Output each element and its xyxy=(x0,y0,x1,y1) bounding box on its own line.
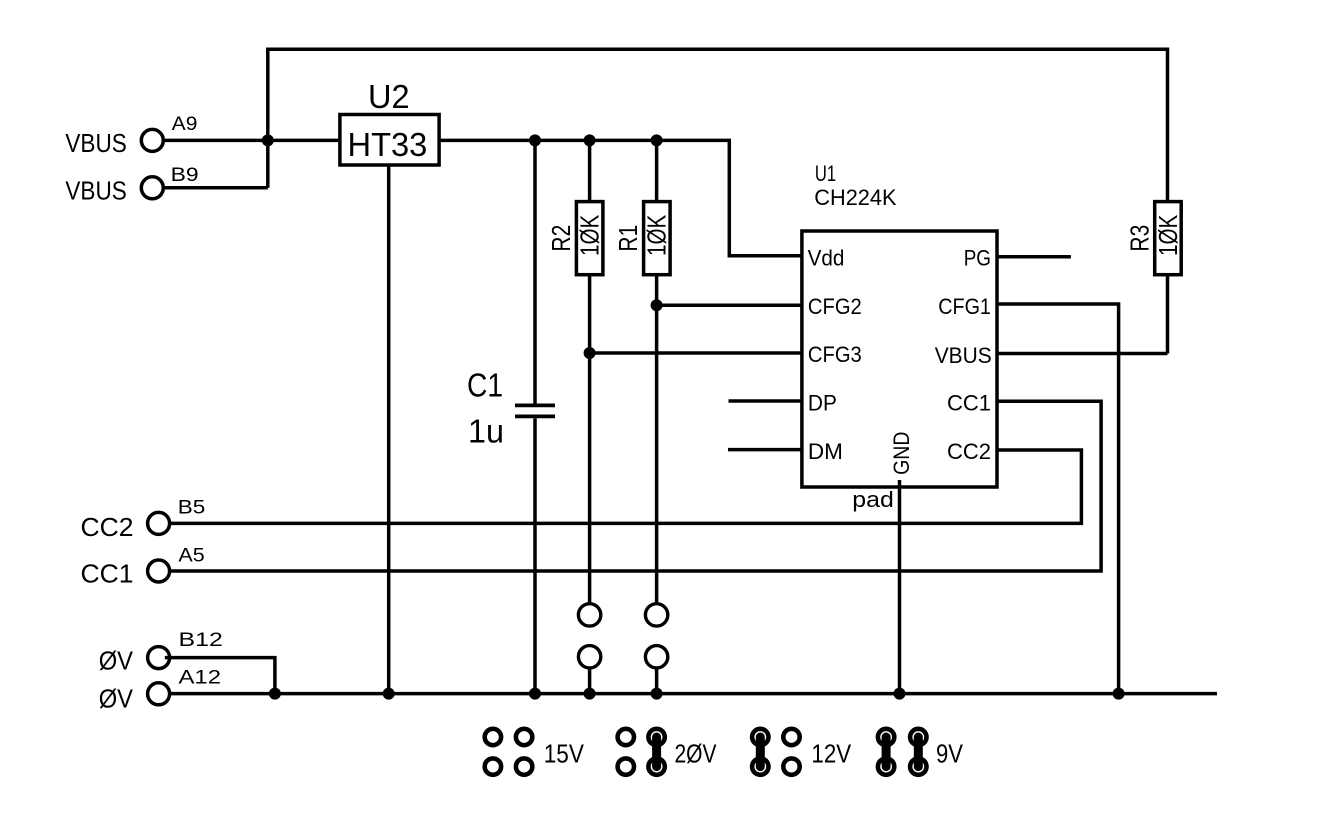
wire CC2 xyxy=(171,450,1082,523)
wire ground bus xyxy=(170,692,1218,696)
svg-text:pad: pad xyxy=(852,487,894,512)
svg-text:CC2: CC2 xyxy=(81,514,134,542)
junction R1 top xyxy=(651,134,663,146)
junction C1 top xyxy=(529,134,541,146)
junction R1 jumper gnd xyxy=(651,688,663,700)
junction R2 jumper gnd xyxy=(584,688,596,700)
resistor R3 xyxy=(1155,202,1182,275)
svg-text:1ØK: 1ØK xyxy=(577,215,605,256)
svg-text:ØV: ØV xyxy=(99,686,133,714)
connector pin A5 xyxy=(148,560,170,582)
svg-text:Vdd: Vdd xyxy=(808,245,845,270)
wire R2 bottom lead to jumper xyxy=(588,275,592,604)
regulator U2 box xyxy=(340,115,439,166)
svg-text:CFG2: CFG2 xyxy=(808,294,862,319)
wire R1 jumper to ground xyxy=(655,668,659,694)
svg-text:A5: A5 xyxy=(178,545,204,567)
svg-text:HT33: HT33 xyxy=(348,127,428,164)
wire junction to U2 xyxy=(268,139,340,143)
svg-text:B12: B12 xyxy=(179,629,223,651)
wire top VBUS rail to R3 xyxy=(268,49,1168,201)
legend 12V shorting bar left xyxy=(756,737,765,767)
legend 15V pad top-right xyxy=(516,729,532,745)
svg-text:C1: C1 xyxy=(467,368,503,405)
wire R1 top lead xyxy=(655,140,659,201)
junction C1 gnd xyxy=(529,688,541,700)
wire CC1 xyxy=(171,401,1101,571)
legend 20V pad top-left xyxy=(618,729,634,745)
legend 15V pad top-left xyxy=(485,729,501,745)
svg-text:2ØV: 2ØV xyxy=(675,740,717,768)
wire B9 xyxy=(165,186,268,190)
capacitor C1 plates xyxy=(515,405,555,416)
junction B12/ground xyxy=(269,688,281,700)
wire CFG3 xyxy=(590,351,802,355)
svg-text:1ØK: 1ØK xyxy=(1155,215,1183,256)
junction R2/CFG3 xyxy=(584,347,596,359)
wire VBUS pin to R3 xyxy=(997,352,1168,356)
connector pin B12 xyxy=(148,647,170,669)
junction U2 gnd xyxy=(383,688,395,700)
wire PG stub xyxy=(997,255,1071,259)
svg-text:VBUS: VBUS xyxy=(65,177,126,205)
wire C1 upper lead xyxy=(533,140,537,403)
wire U2 ground lead xyxy=(387,165,391,694)
junction R1/CFG2 xyxy=(651,299,663,311)
svg-text:CC2: CC2 xyxy=(947,439,991,464)
legend 12V pad bottom-right xyxy=(783,758,799,774)
wire U1 GND lead xyxy=(898,480,902,694)
junction U1 gnd xyxy=(894,688,906,700)
jumper pad R2 top xyxy=(578,604,600,626)
IC U1 box xyxy=(802,231,997,487)
legend 20V pad bottom-right xyxy=(648,758,664,774)
legend 12V pad bottom-left xyxy=(752,758,768,774)
legend 12V pad top-left xyxy=(752,729,768,745)
wire R2 top lead xyxy=(588,140,592,201)
svg-text:15V: 15V xyxy=(544,740,584,768)
wire R3 bottom lead xyxy=(1166,275,1170,354)
wire DP stub xyxy=(729,399,802,403)
svg-text:12V: 12V xyxy=(811,740,851,768)
svg-text:U2: U2 xyxy=(368,79,410,116)
svg-text:CFG3: CFG3 xyxy=(808,342,862,367)
legend 9V pad top-left xyxy=(878,729,894,745)
svg-text:R3: R3 xyxy=(1126,225,1154,252)
junction CFG1 gnd xyxy=(1113,688,1125,700)
svg-text:A9: A9 xyxy=(172,113,198,135)
resistor R1 xyxy=(644,202,671,275)
connector pin A9 xyxy=(141,129,163,151)
legend 9V pad bottom-left xyxy=(878,758,894,774)
svg-text:DP: DP xyxy=(808,390,837,415)
svg-text:CH224K: CH224K xyxy=(814,185,896,210)
svg-text:CFG1: CFG1 xyxy=(938,294,991,319)
legend 15V pad bottom-left xyxy=(485,758,501,774)
wire C1 lower lead xyxy=(533,418,537,693)
legend 9V shorting bar right xyxy=(914,737,923,767)
legend 12V pad top-right xyxy=(783,729,799,745)
svg-text:1ØK: 1ØK xyxy=(644,215,672,256)
junction R2 top xyxy=(584,134,596,146)
legend 9V pad top-right xyxy=(910,729,926,745)
legend 9V pad bottom-right xyxy=(910,758,926,774)
connector pin B5 xyxy=(148,512,170,534)
svg-text:VBUS: VBUS xyxy=(935,343,992,368)
connector pin B9 xyxy=(141,177,163,199)
svg-text:GND: GND xyxy=(889,432,914,475)
legend 20V pad top-right xyxy=(648,729,664,745)
legend 15V pad bottom-right xyxy=(516,758,532,774)
svg-text:U1: U1 xyxy=(815,161,836,186)
svg-text:9V: 9V xyxy=(936,740,963,768)
svg-text:B5: B5 xyxy=(178,497,206,519)
wire R1 bottom lead to jumper xyxy=(655,275,659,604)
svg-text:CC1: CC1 xyxy=(947,390,991,415)
wire VBUS branch vertical xyxy=(266,48,270,188)
wire CFG2 xyxy=(657,303,802,307)
svg-text:1u: 1u xyxy=(468,414,504,451)
svg-text:DM: DM xyxy=(808,439,843,464)
wire A9 to junction xyxy=(165,139,268,143)
legend 20V pad bottom-left xyxy=(618,758,634,774)
wire B12 to ground bus xyxy=(165,658,275,694)
jumper pad R2 bottom xyxy=(578,646,600,668)
wire DM stub xyxy=(728,448,802,452)
svg-text:ØV: ØV xyxy=(99,648,133,676)
wire CFG1 xyxy=(997,304,1119,694)
svg-text:R2: R2 xyxy=(548,225,576,252)
svg-text:PG: PG xyxy=(964,245,991,270)
svg-text:CC1: CC1 xyxy=(81,560,134,588)
junction VBUS A9 xyxy=(262,134,274,146)
svg-text:B9: B9 xyxy=(171,164,199,186)
svg-text:A12: A12 xyxy=(179,666,222,688)
legend 9V shorting bar left xyxy=(882,737,891,767)
wire R2 jumper to ground xyxy=(588,668,592,694)
legend 20V shorting bar right xyxy=(652,737,661,767)
jumper pad R1 top xyxy=(645,604,667,626)
resistor R2 xyxy=(576,202,603,275)
connector pin A12 xyxy=(148,683,170,705)
wire U2 output to U1 Vdd xyxy=(439,140,802,255)
jumper pad R1 bottom xyxy=(645,646,667,668)
svg-text:VBUS: VBUS xyxy=(65,130,126,158)
svg-text:R1: R1 xyxy=(615,225,643,252)
